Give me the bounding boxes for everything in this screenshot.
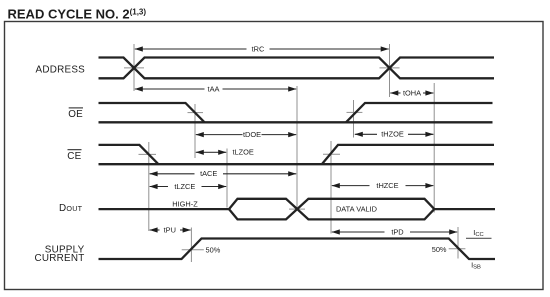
dimension tPD bbox=[332, 231, 385, 233]
svg-text:tPU: tPU bbox=[164, 225, 176, 234]
svg-text:ISB: ISB bbox=[471, 261, 481, 271]
svg-text:DOUT: DOUT bbox=[59, 203, 83, 214]
svg-text:tRC: tRC bbox=[252, 44, 265, 53]
svg-text:CE: CE bbox=[67, 151, 81, 162]
dimension tHZCE bbox=[332, 185, 370, 187]
dimension tLZCE bbox=[150, 186, 168, 188]
dimension tAA bbox=[135, 88, 205, 90]
wire ADDRESS waveform rail A bbox=[99, 58, 495, 79]
node 50% dash CE rise bbox=[323, 153, 340, 155]
wire Dout tail bbox=[434, 208, 495, 210]
svg-text:tACE: tACE bbox=[200, 169, 217, 178]
wire ADDRESS waveform rail B bbox=[99, 58, 495, 79]
svg-text:CURRENT: CURRENT bbox=[34, 253, 84, 264]
node 50% dash OE rise bbox=[347, 111, 363, 113]
svg-text:50%: 50% bbox=[432, 245, 447, 254]
svg-text:tLZCE: tLZCE bbox=[174, 182, 195, 191]
svg-text:READ CYCLE NO. 2(1,3): READ CYCLE NO. 2(1,3) bbox=[8, 6, 147, 21]
node ref vline supply fall 50% bbox=[457, 227, 459, 259]
node 50% dash supply fall bbox=[449, 248, 466, 250]
svg-text:tPD: tPD bbox=[391, 227, 403, 236]
node ref vline address change 2 bbox=[389, 44, 391, 97]
svg-text:DATA VALID: DATA VALID bbox=[336, 205, 377, 214]
node 50% dash dout X bbox=[289, 208, 305, 210]
dimension tHZOE bbox=[355, 133, 377, 135]
dimension tOHA bbox=[390, 92, 400, 94]
svg-text:OE: OE bbox=[68, 109, 83, 120]
node 50% dash OE fall bbox=[188, 112, 204, 114]
dimension tPU bbox=[150, 229, 160, 231]
node 50% dash address X1 bbox=[124, 67, 144, 69]
node ref vline data valid start bbox=[296, 86, 298, 210]
node ref vline dout lz bbox=[226, 149, 228, 208]
node ref vline CE rise bbox=[330, 141, 332, 234]
node 50% dash supply rise bbox=[182, 249, 204, 251]
wire OE high-fall bbox=[99, 103, 205, 122]
node ref vline OE fall bbox=[194, 104, 196, 158]
node 50% dash CE fall bbox=[139, 153, 157, 155]
wire CE rise-high bbox=[322, 145, 494, 164]
node ref vline OE rise bbox=[353, 100, 355, 138]
node ref vline address change 1 bbox=[133, 44, 135, 91]
svg-text:tHZOE: tHZOE bbox=[381, 130, 404, 139]
node ref vline data end bbox=[433, 83, 435, 213]
dimension tRC bbox=[135, 48, 247, 50]
svg-text:50%: 50% bbox=[206, 245, 221, 254]
svg-text:tLZOE: tLZOE bbox=[233, 148, 254, 157]
wire Dout high-z line bbox=[99, 208, 230, 210]
dimension tDOE bbox=[196, 134, 243, 136]
svg-text:ICC: ICC bbox=[473, 228, 483, 238]
svg-text:HIGH-Z: HIGH-Z bbox=[172, 199, 198, 208]
svg-text:tOHA: tOHA bbox=[403, 88, 421, 97]
node ref vline supply rise 50% bbox=[190, 228, 192, 263]
wire OE rise-high bbox=[346, 103, 493, 122]
wire SUPPLY CURRENT waveform bbox=[99, 239, 496, 260]
svg-text:tAA: tAA bbox=[208, 84, 220, 93]
dimension tACE bbox=[150, 173, 195, 175]
svg-text:ADDRESS: ADDRESS bbox=[36, 64, 86, 75]
wire Dout bus lower bbox=[229, 199, 434, 220]
wire Icc level segment bbox=[466, 237, 492, 239]
dimension tLZOE bbox=[196, 151, 211, 153]
wire Dout bus upper bbox=[229, 199, 434, 220]
node ref vline CE fall bbox=[148, 142, 150, 231]
wire CE high-fall bbox=[99, 145, 159, 164]
wire CE low rail bbox=[99, 163, 495, 165]
node 50% dash address X2 bbox=[380, 67, 400, 69]
svg-text:tDOE: tDOE bbox=[243, 130, 261, 139]
svg-text:tHZCE: tHZCE bbox=[376, 181, 398, 190]
wire OE low rail bbox=[99, 121, 493, 123]
